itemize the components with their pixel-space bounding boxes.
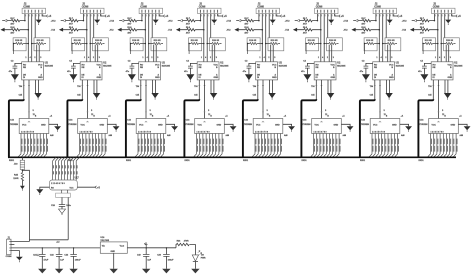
svg-text:100nF: 100nF (75, 259, 82, 261)
svg-text:470R: 470R (184, 239, 189, 242)
svg-text:+12: +12 (56, 242, 59, 244)
channel block 6 (285, 2, 354, 162)
svg-text:C22: C22 (50, 255, 55, 257)
master IC lower tab (56, 193, 71, 197)
svg-text:C18: C18 (51, 205, 56, 207)
LED emission arrows (198, 251, 202, 255)
channel block 3 (109, 2, 178, 162)
svg-text:120R: 120R (13, 178, 19, 180)
master IC bottom stub cap (61, 197, 63, 204)
ground arrow under LED (191, 269, 199, 274)
regulator U16 body (100, 242, 127, 253)
terminator resistor R25 body (21, 173, 23, 181)
wire pin1 to riser A (11, 241, 29, 243)
svg-text:R26: R26 (177, 240, 182, 242)
filter capacitor C21 (33, 247, 49, 273)
junction below jumper (22, 170, 24, 172)
master cap lower lead (61, 206, 63, 209)
ground tip under terminator (21, 189, 23, 190)
ground arrow left of master IC (36, 189, 43, 193)
svg-text:Vout: Vout (120, 244, 125, 247)
svg-text:C23: C23 (64, 255, 69, 257)
link wire between risers (29, 239, 68, 241)
svg-text:C21(+): C21(+) (33, 255, 40, 257)
master IC left pin to ground (40, 187, 50, 189)
input connector J1 body (7, 239, 11, 255)
LED resistor R26 body (176, 243, 189, 245)
power rail left (11, 247, 100, 249)
svg-text:VCC: VCC (70, 188, 75, 190)
filter capacitor C20 (157, 247, 174, 273)
master IC U17 body (50, 180, 78, 190)
riser A drop to pin1 (28, 240, 30, 242)
channel block 2 (51, 2, 120, 162)
channel block 1 (0, 2, 61, 162)
LED resistor lead up (175, 245, 177, 248)
svg-text:CON4: CON4 (6, 255, 13, 258)
LED lower lead (194, 262, 196, 269)
ground tip left of master IC (39, 194, 41, 195)
svg-text:J18: J18 (14, 163, 18, 165)
svg-text:GND: GND (111, 251, 116, 253)
svg-text:C19: C19 (137, 255, 142, 257)
channel block 7 (343, 2, 412, 162)
filter capacitor C19 (137, 247, 152, 273)
svg-text:C20: C20 (157, 255, 162, 257)
ground arrow under terminator (20, 186, 25, 190)
branch wire to output connector (22, 170, 29, 239)
ground arrow under master cap (59, 209, 66, 214)
svg-text:+5: +5 (97, 186, 100, 189)
power rail right (127, 247, 176, 249)
ground arrow at connector J1 (16, 257, 23, 261)
jumper ladder J18 (20, 160, 24, 169)
master bundle wires (53, 161, 77, 180)
svg-text:+5: +5 (144, 243, 147, 246)
master IC tab pins (62, 190, 68, 193)
terminator chain wire from bus (21, 157, 23, 160)
svg-text:100nF: 100nF (168, 259, 175, 261)
wire pin2 stub (11, 244, 14, 246)
channel block 8 (402, 2, 471, 162)
ground tip at connector J1 (18, 260, 20, 262)
ground tip under master cap (61, 214, 63, 216)
master cap plates (59, 205, 65, 207)
wire resistor to ground (21, 180, 23, 185)
bundle tick labels (54, 165, 78, 168)
LED D9 cathode bar (193, 260, 198, 262)
regulator ground pin (113, 253, 115, 268)
LED D9 triangle (192, 255, 198, 261)
svg-text:1uF: 1uF (147, 259, 151, 261)
input connector pin marks (9, 242, 11, 251)
+5 flag master (95, 186, 97, 189)
channel block 5 (226, 2, 295, 162)
svg-text:1 2 3 4 5 6 7 8 9: 1 2 3 4 5 6 7 8 9 (51, 182, 65, 185)
master IC output wire down (67, 197, 69, 239)
svg-text:U16: U16 (100, 237, 105, 239)
bus exit diagonals to master (53, 157, 80, 161)
ground arrow under regulator (110, 269, 118, 274)
svg-text:U17: U17 (75, 178, 80, 180)
svg-text:100n: 100n (66, 205, 71, 207)
wire pin4 to ground (11, 251, 19, 257)
wire jumper to resistor (21, 170, 23, 173)
filter capacitor C23 (64, 247, 81, 273)
filter capacitor C22 (50, 247, 65, 273)
svg-text:D9: D9 (201, 254, 204, 256)
LED resistor right lead (190, 245, 196, 255)
svg-text:47uF: 47uF (44, 258, 49, 261)
svg-text:PWR: PWR (201, 258, 206, 260)
heavy bus horizontal (8, 156, 456, 158)
svg-text:R25: R25 (14, 174, 19, 176)
+5 flag after regulator (145, 244, 147, 248)
master IC right pin to +5 (77, 186, 95, 188)
channel block 4 (168, 2, 237, 162)
svg-text:1uF: 1uF (60, 259, 64, 261)
